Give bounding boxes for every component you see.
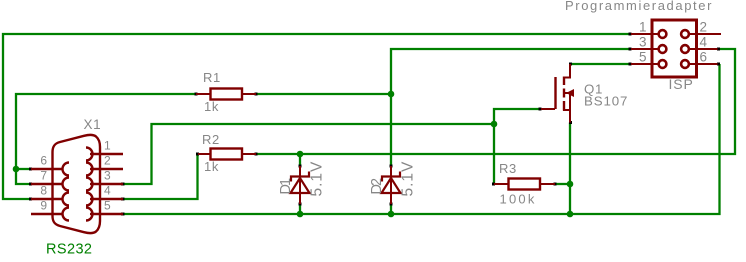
svg-text:R2: R2 bbox=[202, 132, 220, 147]
svg-text:1k: 1k bbox=[204, 159, 219, 174]
svg-text:D2: D2 bbox=[369, 178, 385, 194]
svg-text:3: 3 bbox=[639, 34, 647, 49]
svg-text:1: 1 bbox=[639, 19, 647, 34]
svg-text:BS107: BS107 bbox=[584, 94, 628, 109]
svg-text:2: 2 bbox=[700, 19, 708, 34]
svg-text:R3: R3 bbox=[499, 161, 517, 176]
svg-text:5: 5 bbox=[104, 199, 111, 213]
svg-text:X1: X1 bbox=[84, 117, 102, 132]
svg-text:2: 2 bbox=[104, 154, 111, 168]
svg-text:1k: 1k bbox=[204, 99, 219, 114]
svg-text:6: 6 bbox=[40, 154, 47, 168]
svg-text:4: 4 bbox=[700, 34, 708, 49]
svg-text:Programmieradapter: Programmieradapter bbox=[565, 0, 712, 13]
svg-text:9: 9 bbox=[40, 199, 47, 213]
svg-text:RS232: RS232 bbox=[46, 241, 92, 257]
svg-text:3: 3 bbox=[104, 169, 111, 183]
svg-text:ISP: ISP bbox=[669, 76, 694, 92]
svg-text:8: 8 bbox=[40, 184, 47, 198]
svg-text:4: 4 bbox=[104, 184, 111, 198]
svg-text:7: 7 bbox=[40, 169, 47, 183]
svg-text:5.1V: 5.1V bbox=[309, 161, 326, 197]
svg-text:5: 5 bbox=[639, 49, 647, 64]
svg-text:D1: D1 bbox=[278, 178, 294, 194]
svg-text:6: 6 bbox=[700, 49, 708, 64]
svg-text:5.1V: 5.1V bbox=[400, 161, 417, 197]
svg-text:R1: R1 bbox=[203, 70, 221, 85]
svg-text:1: 1 bbox=[104, 139, 111, 153]
